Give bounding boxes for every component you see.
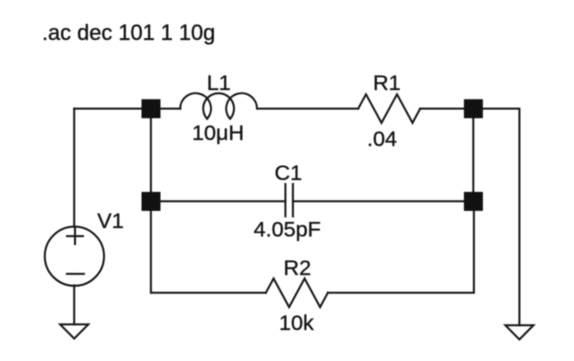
svg-text:R2: R2 (284, 255, 312, 280)
wire R1 to top-right junction (420, 108, 473, 110)
node junction top-left (142, 99, 161, 118)
resistor R1 (358, 94, 420, 123)
wire L1 to R1 (257, 108, 358, 110)
capacitor C1 (285, 184, 293, 216)
svg-text:.04: .04 (367, 126, 397, 151)
svg-text:10k: 10k (279, 310, 314, 335)
wire top-right junction to right rail (473, 109, 519, 326)
svg-text:L1: L1 (207, 70, 231, 95)
wire mid-left junction down and right to R2 (151, 201, 266, 292)
node junction mid-left (142, 192, 161, 211)
svg-text:.ac dec 101 1 10g: .ac dec 101 1 10g (42, 20, 215, 45)
wire left junction column vertical (150, 109, 152, 202)
wire V1 to left ground (73, 285, 75, 324)
svg-text:R1: R1 (373, 70, 401, 95)
wire top-left horizontal (74, 108, 151, 110)
svg-text:C1: C1 (275, 160, 303, 185)
wire right junction column vertical (472, 109, 474, 202)
node junction mid-right (464, 192, 483, 211)
svg-text:10μH: 10μH (192, 120, 244, 145)
wire C1 to mid-right junction (293, 200, 473, 202)
voltage source V1 (45, 227, 104, 286)
inductor L1 (180, 93, 257, 119)
wire top-left junction to L1 (151, 108, 180, 110)
svg-text:V1: V1 (97, 208, 123, 233)
ground right (505, 325, 533, 339)
V1 plus sign (67, 228, 83, 244)
wire R2 to bottom-right corner up to mid-right junction (328, 201, 474, 292)
node junction top-right (464, 99, 483, 118)
svg-text:4.05pF: 4.05pF (254, 217, 321, 242)
wire left vertical down to V1 (73, 109, 75, 227)
ground left (60, 324, 88, 338)
wire mid-left junction to C1 (151, 200, 286, 202)
resistor R2 (266, 279, 328, 308)
V1 minus sign (67, 273, 84, 275)
